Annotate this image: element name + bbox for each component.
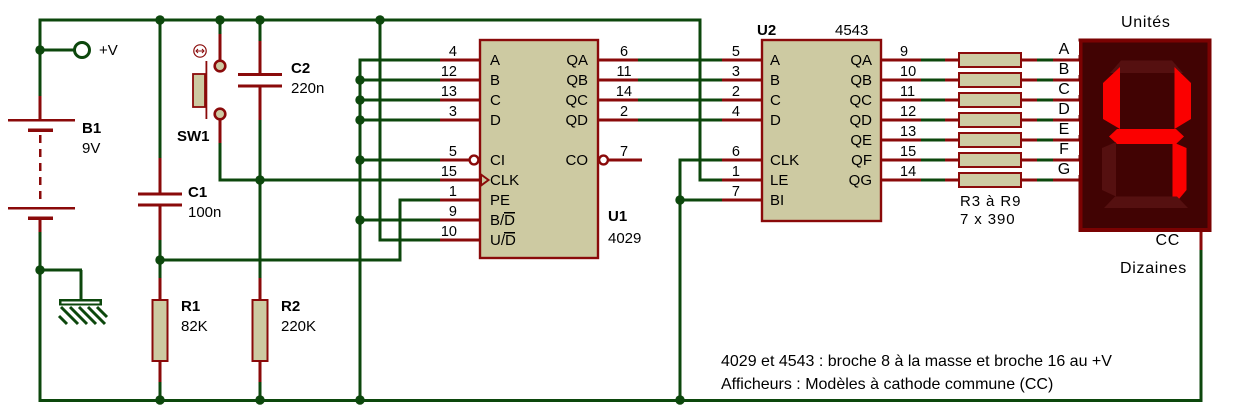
wire C	[360, 99, 440, 102]
svg-text:QD: QD	[566, 112, 589, 129]
pin U2 A stub pin5	[722, 59, 762, 62]
pin U2 QG stub pin14	[881, 179, 921, 182]
wire QF-R8	[921, 159, 945, 162]
svg-text:U2: U2	[757, 22, 776, 39]
segment C lit	[1173, 142, 1187, 199]
wire C1 to PE horizontal y260	[160, 259, 400, 262]
node top rail SW1	[215, 15, 224, 24]
node top rail C2	[255, 15, 264, 24]
wire R5-display C	[1037, 99, 1053, 102]
wire QE-R7	[921, 139, 945, 142]
pin battery top stub	[39, 96, 42, 120]
display label box	[1057, 162, 1079, 176]
display segment labels A-G	[1057, 41, 1079, 178]
svg-text:A: A	[1059, 41, 1070, 58]
wire ground branch vertical	[80, 270, 83, 299]
svg-text:220K: 220K	[281, 318, 316, 335]
segment D unlit	[1104, 197, 1188, 209]
svg-text:QG: QG	[849, 172, 872, 189]
pin C1 bottom stub	[159, 206, 162, 240]
node bottom rail R2	[255, 395, 264, 404]
display label box	[1057, 82, 1079, 96]
svg-text:B: B	[1059, 61, 1070, 78]
svg-text:2: 2	[732, 84, 740, 100]
wire C2 top	[259, 20, 262, 41]
wire C1 top	[159, 20, 162, 158]
pin U1 CI stub pin5	[440, 159, 470, 162]
pin R8 right stub	[1021, 159, 1037, 162]
svg-text:D: D	[770, 112, 781, 129]
segment E unlit	[1102, 142, 1116, 197]
svg-text:15: 15	[900, 144, 916, 160]
wire top +V rail	[39, 19, 702, 22]
display label box	[1057, 122, 1079, 136]
wire R6-display D	[1037, 119, 1053, 122]
svg-text:2: 2	[620, 104, 628, 120]
node bus CI	[355, 155, 364, 164]
svg-text:15: 15	[441, 164, 457, 180]
svg-text:F: F	[1059, 141, 1069, 158]
svg-text:4029: 4029	[608, 230, 641, 247]
wire PE horizontal	[399, 199, 441, 202]
node bottom rail R1	[155, 395, 164, 404]
wire U2 CLK/BI ground drop x680	[679, 160, 682, 401]
pin display F stub	[1053, 159, 1079, 162]
pin display C stub	[1053, 99, 1079, 102]
svg-text:E: E	[1059, 121, 1070, 138]
svg-text:9V: 9V	[82, 140, 100, 157]
U1 B/D overbar	[504, 212, 515, 214]
pin U1 U/D stub pin10	[440, 239, 480, 242]
svg-text:B1: B1	[82, 120, 101, 137]
wire battery top vertical	[39, 20, 42, 96]
wire QG-R9	[921, 179, 945, 182]
svg-text:U/D: U/D	[490, 232, 516, 249]
svg-text:Afficheurs : Modèles à cathode: Afficheurs : Modèles à cathode commune (…	[721, 376, 1053, 393]
svg-text:B: B	[490, 72, 500, 89]
pin R2 bottom stub	[259, 361, 262, 382]
pin U1 D stub pin3	[440, 119, 480, 122]
pin U2 QC stub pin11	[881, 99, 921, 102]
svg-text:3: 3	[732, 64, 740, 80]
node top rail x380	[375, 15, 384, 24]
pin C1 top stub	[159, 158, 162, 193]
node bus B/D	[355, 215, 364, 224]
pin R8 left stub	[945, 159, 959, 162]
svg-text:10: 10	[441, 224, 457, 240]
terminal +V	[75, 43, 90, 58]
svg-text:C: C	[1058, 81, 1070, 98]
svg-text:D: D	[1058, 101, 1070, 118]
node bottom rail x680	[675, 395, 684, 404]
segment G lit	[1109, 129, 1184, 144]
svg-text:R2: R2	[281, 298, 300, 315]
wire U2 LE horizontal	[699, 179, 723, 182]
svg-text:3: 3	[449, 104, 457, 120]
wire B/D	[360, 219, 440, 222]
pin R5 right stub	[1021, 99, 1037, 102]
pin U1 QD stub pin2	[598, 119, 638, 122]
resistor R4	[959, 73, 1021, 87]
pin U1 QC stub pin14	[598, 99, 638, 102]
svg-text:Unités: Unités	[1121, 14, 1171, 31]
svg-text:6: 6	[732, 144, 740, 160]
wire R2 bottom	[259, 382, 262, 401]
svg-text:82K: 82K	[181, 318, 208, 335]
svg-text:4029 et 4543 : broche 8 à la m: 4029 et 4543 : broche 8 à la masse et br…	[721, 353, 1112, 370]
wire ground branch horizontal	[40, 269, 82, 272]
capacitor C2	[238, 73, 282, 88]
svg-text:R3 à R9: R3 à R9	[960, 193, 1021, 210]
pin display B stub	[1053, 79, 1079, 82]
resistor R7	[959, 133, 1021, 147]
wire QD-R6	[921, 119, 945, 122]
display label box	[1057, 42, 1079, 56]
pin U2 QD stub pin12	[881, 119, 921, 122]
svg-text:4543: 4543	[835, 22, 868, 39]
switch SW1	[193, 45, 225, 120]
wire CLK horizontal to U1	[219, 179, 441, 182]
pin display G stub	[1053, 179, 1079, 182]
segment A unlit	[1110, 61, 1183, 74]
svg-text:14: 14	[616, 84, 632, 100]
svg-text:QD: QD	[850, 112, 873, 129]
pin U2 QE stub pin13	[881, 139, 921, 142]
wire bottom ground rail	[39, 399, 1203, 402]
svg-text:A: A	[770, 52, 780, 69]
node junction dots	[35, 15, 684, 404]
wire display cathode vertical	[1200, 250, 1203, 401]
pin U2 C stub pin2	[722, 99, 762, 102]
resistor R8	[959, 153, 1021, 167]
pin U2 QF stub pin15	[881, 159, 921, 162]
svg-text:7: 7	[620, 144, 628, 160]
svg-text:13: 13	[900, 124, 916, 140]
node +V junction	[35, 45, 44, 54]
wire A	[359, 59, 441, 62]
pin C2 top stub	[259, 41, 262, 74]
display body	[1081, 41, 1210, 231]
svg-text:QF: QF	[851, 152, 872, 169]
pin U2 D stub pin4	[722, 119, 762, 122]
svg-text:4: 4	[449, 44, 457, 60]
svg-text:220n: 220n	[291, 80, 324, 97]
svg-text:9: 9	[900, 44, 908, 60]
wire U2 LE vertical x700	[699, 20, 702, 182]
wire QD to U2-D	[638, 119, 722, 122]
pin R9 left stub	[945, 179, 959, 182]
wire ground bus x360	[359, 60, 362, 401]
wire battery bottom vertical	[39, 232, 42, 402]
svg-text:C: C	[770, 92, 781, 109]
pin SW1 bottom stub	[219, 119, 222, 143]
pin U1 PE stub pin1	[440, 199, 480, 202]
wire D	[360, 119, 440, 122]
pin U2 QB stub pin10	[881, 79, 921, 82]
svg-text:G: G	[1058, 161, 1070, 178]
svg-text:Dizaines: Dizaines	[1120, 260, 1187, 277]
svg-text:PE: PE	[490, 192, 510, 209]
wire U2 CLK horizontal	[679, 159, 723, 162]
pin R5 left stub	[945, 99, 959, 102]
svg-text:SW1: SW1	[177, 128, 210, 145]
U1 CO bubble	[599, 156, 608, 165]
pin battery bottom stub	[39, 219, 42, 232]
wire CI	[360, 159, 440, 162]
svg-text:9: 9	[449, 204, 457, 220]
resistor R9	[959, 173, 1021, 187]
pin U1 C stub pin13	[440, 99, 480, 102]
pin R4 left stub	[945, 79, 959, 82]
svg-text:R1: R1	[181, 298, 200, 315]
U2 pin numbers	[732, 44, 916, 200]
svg-text:12: 12	[900, 104, 916, 120]
pin R7 right stub	[1021, 139, 1037, 142]
wire R4-display B	[1037, 79, 1053, 82]
svg-text:11: 11	[900, 84, 915, 100]
op-amp U2 body	[762, 40, 881, 221]
node bus C	[355, 95, 364, 104]
wire QA to U2-A	[638, 59, 722, 62]
pin display cathode stub	[1200, 232, 1203, 250]
svg-text:100n: 100n	[188, 204, 221, 221]
pin U2 BI stub pin7	[722, 199, 762, 202]
wire C1 bottom to R1	[159, 240, 162, 278]
pin U2 QA stub pin9	[881, 59, 921, 62]
svg-text:QB: QB	[850, 72, 872, 89]
wire C2 bottom to R2	[259, 120, 262, 278]
pin R4 right stub	[1021, 79, 1037, 82]
pin SW1 top stub	[219, 34, 222, 61]
wire SW1 top	[219, 20, 222, 34]
svg-text:13: 13	[441, 84, 457, 100]
node bottom rail bus	[355, 395, 364, 404]
svg-text:1: 1	[732, 164, 740, 180]
wire R7-display E	[1037, 139, 1053, 142]
wire QC-R5	[921, 99, 945, 102]
resistor R6	[959, 113, 1021, 127]
svg-text:C2: C2	[291, 60, 310, 77]
node top rail C1	[155, 15, 164, 24]
svg-text:7 x 390: 7 x 390	[960, 211, 1016, 228]
pin R1 top stub	[159, 278, 162, 300]
battery B1	[8, 119, 75, 220]
svg-text:CLK: CLK	[490, 172, 519, 189]
wire +V drop x380	[379, 20, 382, 242]
pin R3 right stub	[1021, 59, 1037, 62]
svg-text:B/D: B/D	[490, 212, 515, 229]
svg-text:QA: QA	[566, 52, 588, 69]
wire U/D horizontal	[379, 239, 441, 242]
U1 U/D overbar	[504, 232, 515, 234]
U1 pin numbers	[441, 44, 632, 240]
wire R9-display G	[1037, 179, 1053, 182]
pin R1 bottom stub	[159, 361, 162, 382]
wire PE drop x400	[399, 200, 402, 262]
node C1 bottom	[155, 255, 164, 264]
wire SW1 bottom vertical	[219, 143, 222, 182]
wire QB to U2-B	[638, 79, 722, 82]
display label box	[1057, 102, 1079, 116]
svg-text:12: 12	[441, 64, 457, 80]
svg-text:5: 5	[732, 44, 740, 60]
pin C2 bottom stub	[259, 87, 262, 120]
wire U2 BI horizontal	[680, 199, 722, 202]
svg-text:BI: BI	[770, 192, 784, 209]
svg-text:CC: CC	[1155, 232, 1180, 249]
wire B	[360, 79, 440, 82]
segment B lit	[1175, 67, 1192, 129]
pin R7 left stub	[945, 139, 959, 142]
wire QC to U2-C	[638, 99, 722, 102]
svg-text:D: D	[490, 112, 501, 129]
pin R2 top stub	[259, 278, 262, 300]
svg-text:C: C	[490, 92, 501, 109]
svg-text:QA: QA	[850, 52, 872, 69]
svg-text:6: 6	[620, 44, 628, 60]
svg-text:QC: QC	[566, 92, 589, 109]
resistor R3	[959, 53, 1021, 67]
pin U1 A stub pin4	[440, 59, 480, 62]
pin R3 left stub	[945, 59, 959, 62]
svg-text:CLK: CLK	[770, 152, 799, 169]
resistor R2	[253, 300, 268, 361]
svg-text:14: 14	[900, 164, 916, 180]
svg-text:4: 4	[732, 104, 740, 120]
node SW1-CLK	[255, 175, 264, 184]
pin display E stub	[1053, 139, 1079, 142]
pin U2 LE stub pin1	[722, 179, 762, 182]
ground	[59, 299, 107, 324]
pin R6 right stub	[1021, 119, 1037, 122]
svg-text:11: 11	[616, 64, 631, 80]
pin R9 right stub	[1021, 179, 1037, 182]
segment F lit	[1103, 67, 1120, 129]
svg-text:A: A	[490, 52, 500, 69]
svg-text:10: 10	[900, 64, 916, 80]
svg-text:U1: U1	[608, 208, 627, 225]
wire QB-R4	[921, 79, 945, 82]
pin U1 CO stub pin7	[608, 159, 642, 162]
display label box	[1057, 62, 1079, 76]
wire QA-R3	[921, 59, 945, 62]
svg-text:LE: LE	[770, 172, 788, 189]
U1 pin labels	[490, 52, 588, 249]
node bus B	[355, 75, 364, 84]
svg-text:QE: QE	[850, 132, 872, 149]
node U2 BI	[675, 195, 684, 204]
pin display D stub	[1053, 119, 1079, 122]
svg-text:5: 5	[449, 144, 457, 160]
pin U1 B stub pin12	[440, 79, 480, 82]
pin U1 CLK stub pin15	[440, 179, 480, 182]
svg-text:C1: C1	[188, 184, 207, 201]
pin display A stub	[1053, 59, 1079, 62]
resistor R5	[959, 93, 1021, 107]
wire R3-display A	[1037, 59, 1053, 62]
svg-text:QC: QC	[850, 92, 873, 109]
display label box	[1057, 142, 1079, 156]
svg-text:CI: CI	[490, 152, 505, 169]
U2 pin labels	[770, 52, 872, 209]
op-amp U1 body	[480, 40, 598, 258]
svg-text:B: B	[770, 72, 780, 89]
pin R6 left stub	[945, 119, 959, 122]
pin U1 QA stub pin6	[598, 59, 638, 62]
svg-text:QB: QB	[566, 72, 588, 89]
U1 CLK triangle	[481, 175, 489, 186]
pin U1 QB stub pin11	[598, 79, 638, 82]
pin U2 B stub pin3	[722, 79, 762, 82]
pin U1 B/D stub pin9	[440, 219, 480, 222]
node battery ground	[35, 265, 44, 274]
U1 CI bubble	[470, 156, 479, 165]
svg-text:1: 1	[449, 184, 457, 200]
pin U2 CLK stub pin6	[722, 159, 762, 162]
resistor R1	[153, 300, 168, 361]
svg-text:+V: +V	[99, 42, 118, 59]
wire R8-display F	[1037, 159, 1053, 162]
svg-text:CO: CO	[566, 152, 589, 169]
svg-text:7: 7	[732, 184, 740, 200]
wire R1 bottom	[159, 382, 162, 401]
capacitor C1	[138, 193, 182, 207]
node bus D	[355, 115, 364, 124]
wire +V branch	[40, 49, 75, 52]
